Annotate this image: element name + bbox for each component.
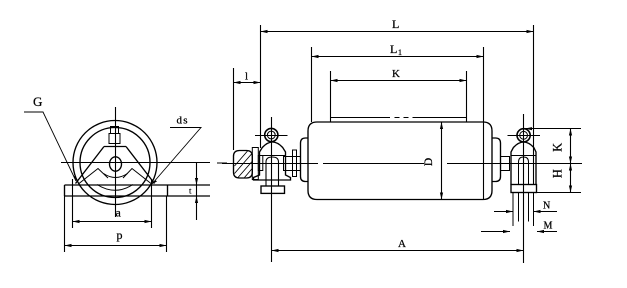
bolt top extension line	[525, 128, 581, 130]
base plate right end	[167, 185, 169, 196]
svg-text:K: K	[550, 143, 564, 152]
dimension l extension line	[233, 68, 235, 150]
bracket rib profile	[79, 169, 151, 184]
left shaft collar	[252, 148, 258, 180]
svg-text:L: L	[392, 17, 399, 31]
dimension K top	[331, 80, 467, 82]
right bracket fingers	[513, 193, 534, 227]
dimension L1 extension left	[311, 47, 313, 122]
label t	[189, 186, 192, 196]
right bearing window	[519, 157, 529, 185]
svg-text:D: D	[423, 158, 435, 166]
right bracket block	[511, 185, 537, 193]
left bearing foot	[261, 186, 285, 193]
label G	[33, 94, 42, 109]
dimension K right	[570, 129, 572, 164]
bracket A-frame	[76, 147, 155, 184]
hub boss arc	[104, 174, 128, 178]
svg-text:ds: ds	[177, 115, 189, 127]
belt line on drum	[330, 117, 466, 119]
svg-text:a: a	[116, 206, 122, 220]
svg-text:A: A	[398, 238, 406, 250]
shaft centerline	[222, 163, 582, 165]
drum outer circle	[73, 121, 157, 205]
dimension K top extension left	[330, 71, 332, 122]
label ds	[177, 115, 189, 127]
left shaft step	[258, 156, 263, 171]
right bearing centerline and A extension	[523, 114, 525, 263]
dimension L1 extension right	[483, 47, 485, 200]
bracket base arc	[97, 185, 133, 191]
svg-text:L: L	[390, 42, 397, 56]
dimension L1	[312, 56, 484, 58]
left bearing window and stem	[266, 157, 279, 186]
left view vertical centerline	[115, 107, 117, 217]
dimension D	[441, 122, 443, 200]
shaft collar left of drum	[293, 150, 297, 177]
bracket bolt body	[109, 134, 120, 144]
left bearing housing	[254, 142, 291, 180]
right bearing bolt	[517, 129, 530, 142]
svg-text:N: N	[543, 201, 550, 212]
svg-text:G: G	[33, 94, 42, 109]
shaft step right of left bearing	[284, 157, 301, 171]
shaft end block hatched	[234, 151, 253, 179]
svg-text:M: M	[544, 221, 553, 232]
dimension H	[570, 164, 572, 193]
dimension p extension lines	[64, 196, 66, 252]
left bearing split line	[260, 155, 286, 157]
dimension L l shared extension	[260, 25, 262, 148]
left view horizontal centerline	[61, 162, 227, 165]
drum left end cap	[301, 138, 309, 182]
label G leader	[24, 112, 76, 181]
dimension l	[234, 82, 261, 84]
dimension p	[65, 245, 167, 247]
right shaft step	[501, 157, 510, 171]
dimension t line	[196, 163, 198, 221]
block bottom extension line	[537, 192, 582, 194]
left bearing bolt	[265, 128, 278, 141]
drum body	[308, 122, 492, 200]
svg-text:H: H	[550, 169, 564, 178]
drum inner circle	[80, 128, 150, 198]
svg-text:p: p	[117, 228, 123, 242]
dimension K top extension right	[466, 71, 468, 122]
label ds leader	[152, 128, 201, 185]
left bearing centerline and A extension	[271, 117, 273, 262]
right bearing split line	[511, 155, 536, 157]
dimension a extension lines	[72, 179, 74, 228]
shaft hole	[110, 157, 122, 171]
bracket bolt head	[111, 127, 119, 134]
drum right end cap	[492, 138, 501, 182]
dimension N	[494, 211, 557, 213]
svg-text:1: 1	[398, 48, 402, 57]
base plate left end	[64, 185, 66, 196]
dimension L right extension	[533, 25, 535, 185]
dimension a	[73, 221, 152, 223]
dimension L	[261, 31, 534, 33]
base plate bottom edge	[65, 195, 211, 197]
dimension M	[481, 231, 557, 233]
dimension A	[272, 250, 524, 252]
shaft end block hatch lines	[235, 151, 253, 178]
svg-text:K: K	[392, 68, 400, 80]
svg-text:l: l	[245, 71, 248, 83]
right bearing housing	[511, 142, 536, 185]
base plate top edge	[65, 184, 211, 186]
